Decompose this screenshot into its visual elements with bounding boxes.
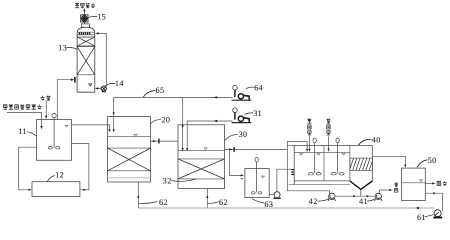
backwash drain vessel 20 [137,182,139,208]
svg-text:20: 20 [161,115,170,124]
label 混凝剂 (coagulant), vertical [307,119,311,135]
stirrer 2 in clarifier 40 [331,138,344,175]
svg-text:65: 65 [156,86,165,95]
upper X brace in column 13 [77,37,95,46]
svg-text:14: 14 [115,79,124,88]
sludge pump 42 [328,193,336,201]
label 絮凝剂 (flocculant), vertical [326,119,330,135]
heat exchanger E12 [32,182,80,197]
svg-text:62: 62 [219,198,228,207]
wire tank 50 to backwash pump 61 [425,192,442,211]
backwash drain vessel 30 [206,189,208,208]
wire column sump to pump 14 with arrow into column [95,87,101,89]
vacuum pump U15 [81,15,88,22]
svg-text:40: 40 [372,135,381,144]
wire branch down into tank 63 [230,149,244,178]
svg-text:13: 13 [58,44,67,53]
wire vessel 20 to vessel 30 with arrow and flange [151,139,179,144]
label 20 with leader [151,115,171,124]
label 50 with leader [417,156,437,168]
wire vessel 30 outlet with arrow and flange [225,147,288,152]
wire pump 42 to pump 41 with cone drain junction [335,195,375,197]
distributor stubs into clarifier 40 [291,170,294,175]
cone bottom of clarifier 40 [350,181,372,196]
packing X in vessel 20 [108,148,151,171]
backwash pump 61 [433,210,442,218]
label 31 with leader [244,109,262,118]
label 出水 (effluent) [437,181,447,186]
svg-text:15: 15 [97,13,106,22]
arrow spray into column top [95,32,98,34]
label 11 with leader [18,127,36,136]
label 65 with leader [143,86,164,97]
inlet channel lip on clarifier 40 [288,144,295,146]
clean water tank T50 [402,168,426,200]
air line 65 from blower 64 to vessels [113,96,233,132]
wire pump 15 to column dome [83,22,85,24]
wire clarifier 40 outlet to clean tank 50 [372,156,406,167]
blower 31 [232,108,252,123]
svg-text:41: 41 [359,197,368,206]
label 30 with leader [225,130,248,140]
blower 64 [232,86,252,101]
demister band in column 13 [77,32,95,35]
treated water outlet wire [425,182,435,184]
packing X section in column 13 [77,47,95,75]
label 12 with leader [47,170,64,181]
svg-text:12: 12 [55,170,64,179]
wire pump discharge to clarifier 40 distributor [277,169,291,192]
wire pump 42 suction [287,191,329,194]
wire overflow channel to clarifier compartment 1 [287,142,308,191]
wire vacuum vent up from pump 15 with arrow [83,8,85,15]
coagulant dosing line into compartment 1 [308,136,310,152]
label 61 with leader [417,213,434,222]
intermediate tank T63 [245,169,269,198]
wire heater 12 back up to tank 11 (right leg) [72,144,89,191]
svg-text:30: 30 [239,130,248,139]
svg-text:11: 11 [18,127,27,136]
transfer pump after tank 63 [269,192,280,199]
wire tank 11 to biofilter 20 [72,125,111,132]
air line from blower 31 into vessel 30 [186,120,232,151]
backwash header from pump 61 [138,207,434,209]
label 64 with leader [246,84,263,93]
label 63 with leader [252,199,273,210]
label 40 with leader [358,135,380,145]
feed nozzle flange on column 13 [74,77,76,83]
svg-text:50: 50 [428,156,437,165]
svg-text:62: 62 [159,198,168,207]
flocculant dosing line into compartment 2 [328,136,330,151]
biofilter vessel T20 [108,117,151,182]
label 62 (left) with leader [139,198,168,207]
circulation pump P14 [101,86,106,92]
sludge discharge pump 41 [375,193,383,201]
label 大气 (atmosphere) [41,96,51,101]
svg-text:64: 64 [254,84,263,93]
tank T11 [37,120,72,161]
label 62 (right) with leader [208,198,228,207]
label 15 with leader [88,13,106,22]
label 污泥 (sludge), vertical [394,183,397,193]
stirrer in tank 11 [48,114,60,149]
label 14 with leader [105,79,124,88]
svg-text:42: 42 [309,197,318,206]
level mark in column sump [89,84,92,86]
label 32 with leader to packing [163,176,196,185]
svg-text:32: 32 [163,176,172,185]
wire atmosphere vent into tank 11 [45,101,47,120]
air branch from line 65 into vessel 30 [182,97,184,151]
stirrer in tank 63 [251,157,261,194]
column C13 shell [77,24,95,92]
packing X in vessel 30 [178,159,225,179]
svg-text:61: 61 [417,213,426,222]
inclined plate settler hatch in unit 40 [350,158,372,170]
label 真空排放 (vacuum discharge) [75,3,95,8]
biofilter vessel T30 [178,125,225,189]
wire pump 14 riser to spray header [96,33,106,86]
label 41 with leader [359,197,375,206]
label 13 with leader [58,44,77,53]
wire tank 11 down to heater 12 (left leg) [19,147,37,191]
label 42 with leader [309,197,329,206]
wire feed from tank 11 riser to column 13 [57,79,74,120]
wire feed water into tank 11 [7,112,43,129]
sludge outlet wire with arrow [380,189,393,194]
label 高盐反渗透浓水 (high-salinity RO concentrate) [3,104,41,109]
stirrer 1 in clarifier 40 [308,138,321,175]
clarifier/flocculator unit 40 shell [289,145,373,184]
svg-text:31: 31 [253,109,262,118]
svg-text:63: 63 [264,200,273,209]
